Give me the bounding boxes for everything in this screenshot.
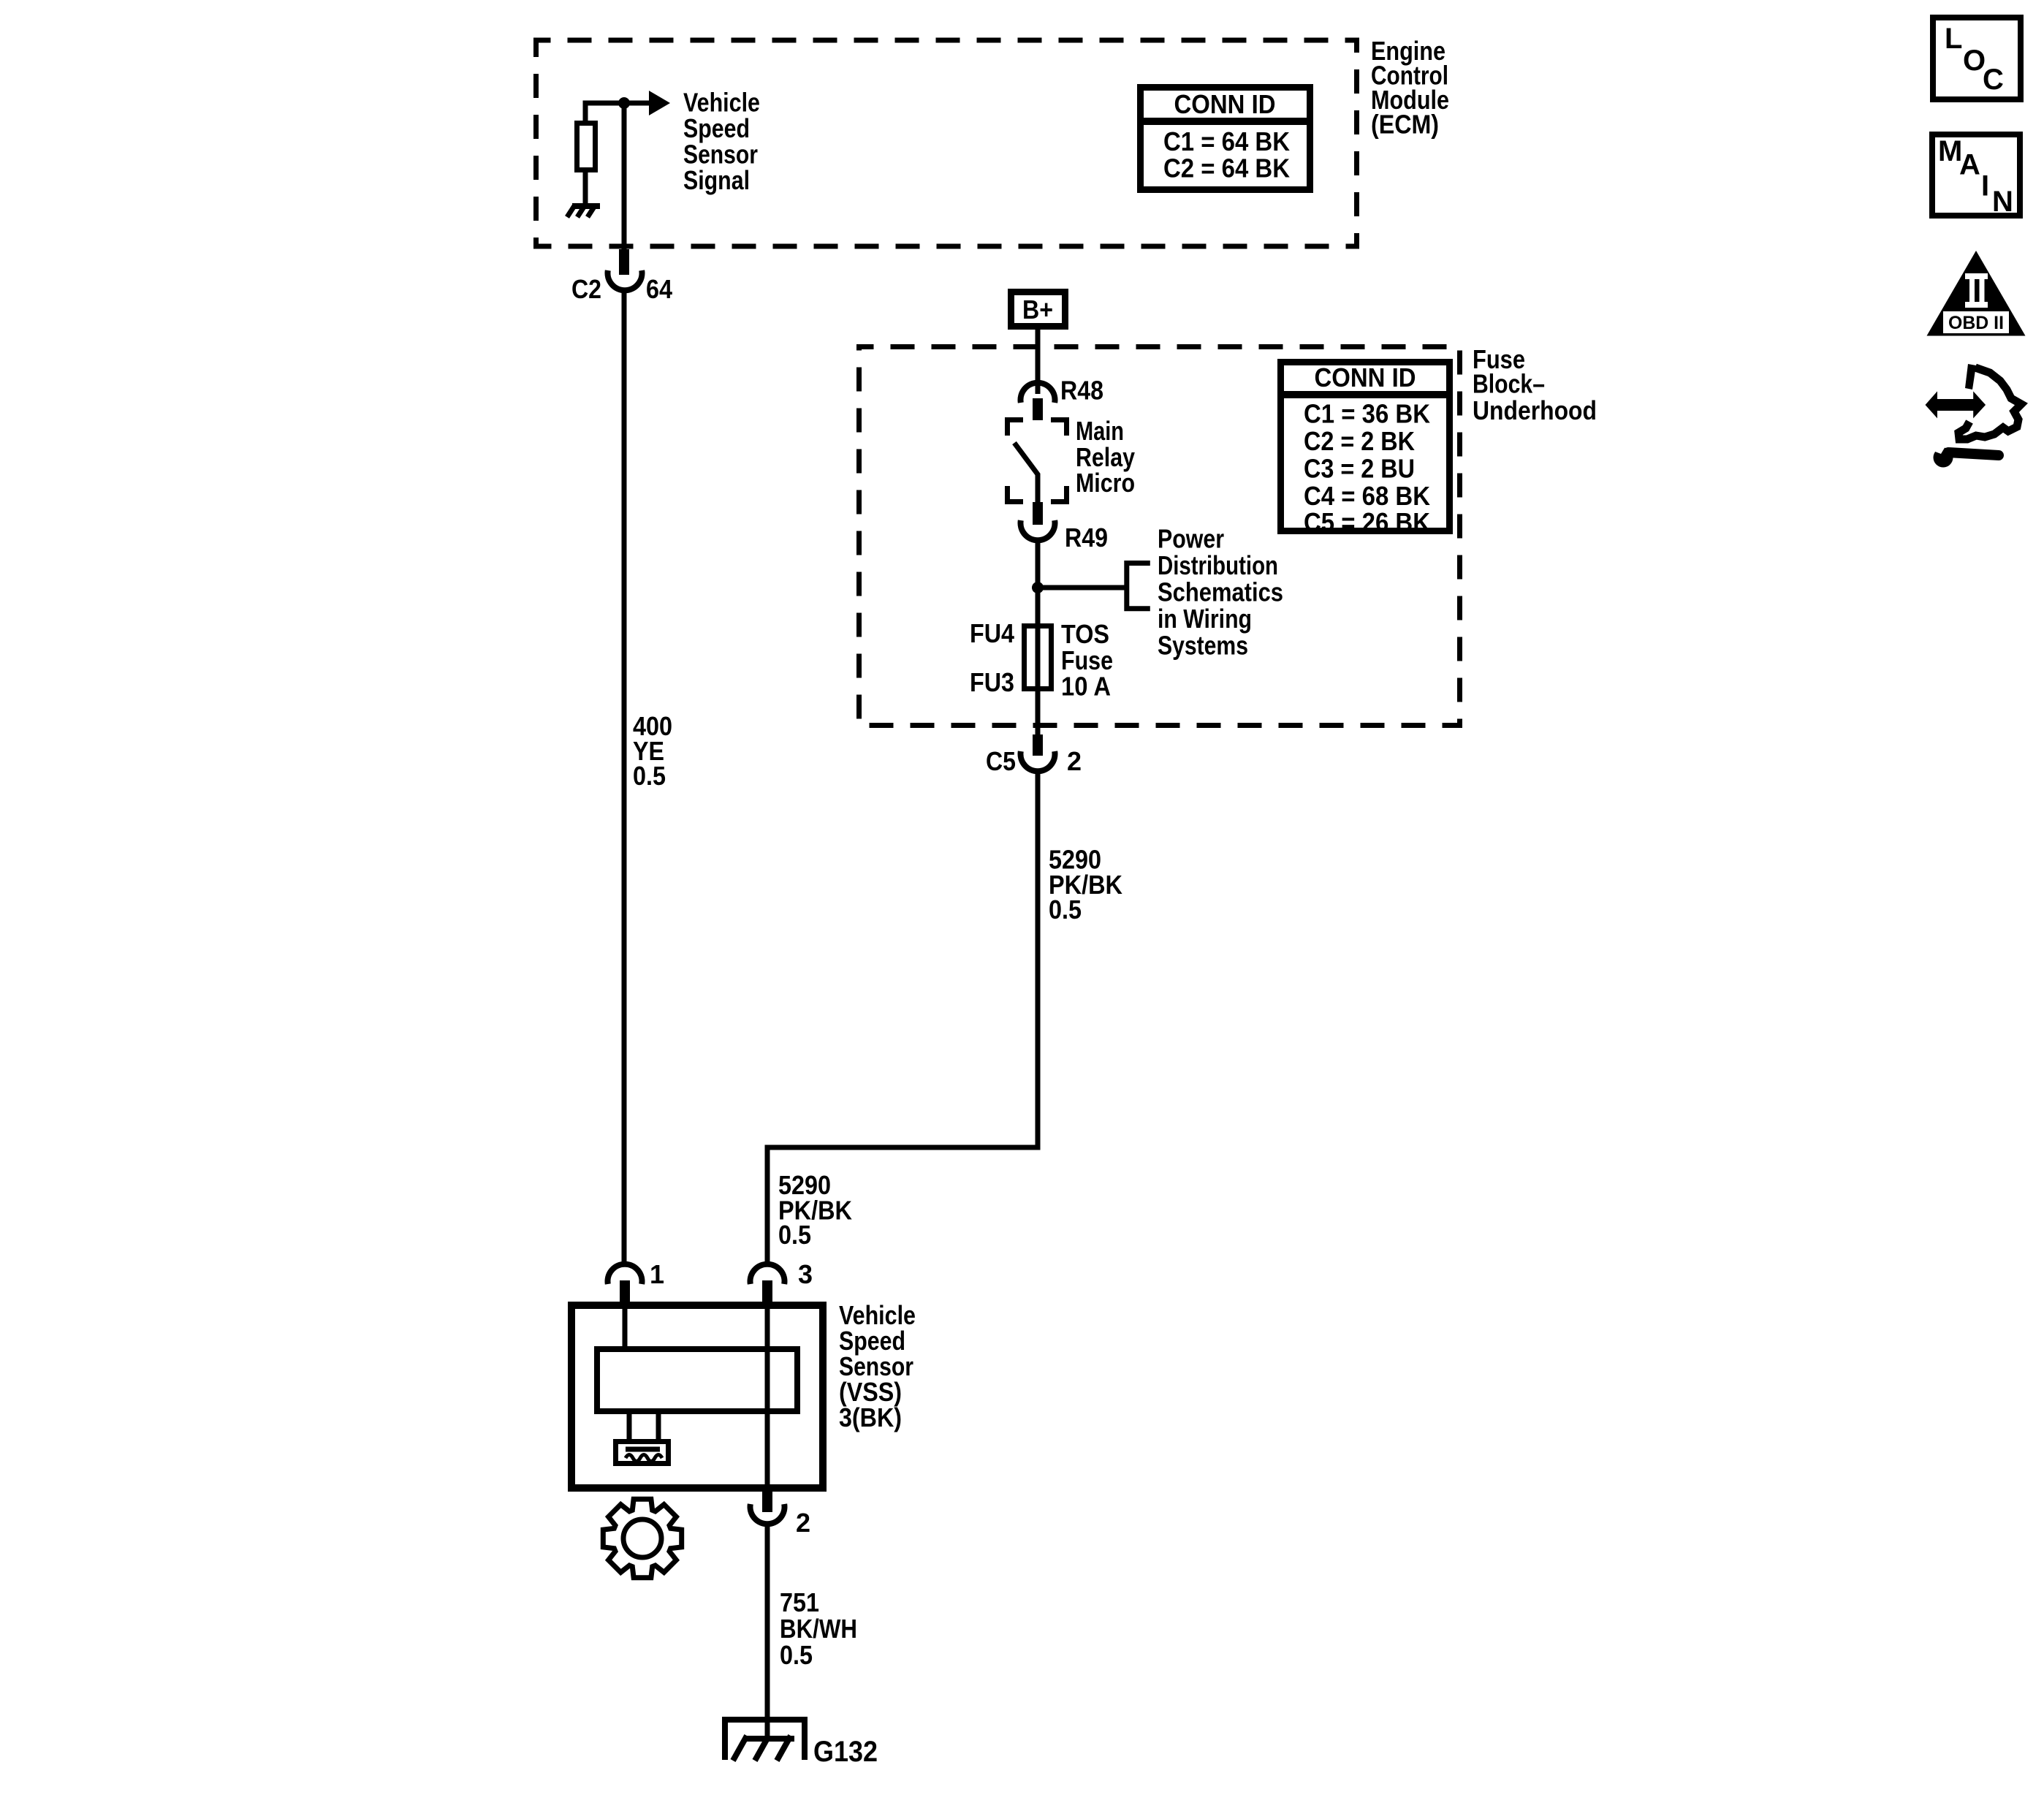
wire label 5290 PK/BK 0.5 (lower): [778, 1170, 852, 1250]
svg-text:in Wiring: in Wiring: [1158, 604, 1252, 634]
svg-text:3: 3: [798, 1259, 813, 1289]
Fuse Block dashed box: [859, 347, 1460, 726]
svg-text:L: L: [1945, 23, 1962, 55]
svg-text:Main: Main: [1076, 416, 1124, 446]
relay coil box corner brackets (Main Relay Micro): [1008, 420, 1067, 502]
svg-text:Block–: Block–: [1473, 369, 1545, 399]
svg-text:Power: Power: [1158, 524, 1224, 554]
svg-text:64: 64: [646, 274, 672, 304]
label: Main Relay Micro: [1076, 416, 1135, 498]
wire label 751 BK/WH 0.5: [780, 1587, 857, 1670]
svg-text:C2 = 64 BK: C2 = 64 BK: [1163, 153, 1290, 183]
gear hub circle: [623, 1519, 661, 1557]
svg-text:C4 = 68 BK: C4 = 68 BK: [1304, 481, 1430, 511]
label: Vehicle Speed Sensor Signal: [683, 88, 760, 196]
connector R48 female arc: [1021, 383, 1055, 403]
svg-text:I: I: [1981, 170, 1989, 202]
power distribution fork symbol: [1127, 563, 1150, 609]
ECM CONN ID table: [1137, 88, 1313, 190]
junction node dot: [1032, 582, 1044, 593]
gear symbol: [603, 1499, 681, 1577]
connector pin 1 female arc: [608, 1264, 642, 1284]
Fuse Block CONN ID table: [1277, 362, 1453, 538]
svg-text:10 A: 10 A: [1061, 672, 1111, 702]
double arrow: [1926, 391, 1986, 418]
svg-text:C5: C5: [986, 746, 1016, 776]
svg-text:C5 = 26 BK: C5 = 26 BK: [1304, 507, 1430, 537]
pickup squiggle: [626, 1455, 662, 1462]
connector C5 male terminal: [1033, 734, 1043, 756]
svg-text:C1 = 64 BK: C1 = 64 BK: [1163, 126, 1290, 156]
svg-text:C2 = 2 BK: C2 = 2 BK: [1304, 426, 1415, 456]
wire label 400 YE 0.5: [633, 711, 672, 791]
svg-text:Underhood: Underhood: [1473, 395, 1597, 425]
wire: junction to power distribution fork: [1038, 585, 1127, 591]
B+ power box: [1011, 292, 1065, 327]
svg-text:(ECM): (ECM): [1371, 110, 1439, 140]
wire: C5 down, across, down to VSS pin 3: [767, 772, 1038, 1262]
svg-text:C: C: [1983, 64, 2004, 96]
wire: pin3 through sensor box: [765, 1303, 770, 1492]
wire label 5290 PK/BK 0.5 (upper): [1049, 845, 1122, 925]
label: TOS Fuse 10 A: [1061, 619, 1113, 702]
connector R49 male terminal: [1033, 502, 1043, 525]
resistor (ECM internal): [577, 124, 596, 170]
svg-text:Signal: Signal: [683, 165, 750, 195]
hand outline: [1958, 368, 2021, 439]
wire: R49 down through fuse to C5: [1036, 542, 1041, 734]
wire: pin1 into sensor element: [623, 1303, 628, 1346]
svg-text:C2: C2: [571, 274, 601, 304]
wire: stub down to resistor: [583, 101, 588, 121]
svg-text:0.5: 0.5: [633, 761, 666, 791]
label: Power Distribution Schematics in Wiring Systems: [1158, 524, 1283, 661]
relay switch blade: [1014, 443, 1038, 502]
svg-text:0.5: 0.5: [778, 1220, 811, 1250]
VSS component box: [571, 1305, 823, 1488]
label: Fuse Block Underhood: [1473, 344, 1597, 425]
wire: 400 YE from C2 down to VSS pin 1: [622, 290, 627, 1262]
svg-text:A: A: [1959, 149, 1980, 181]
OBD II triangle icon: [1927, 251, 2026, 336]
hand finger bar: [1965, 364, 1976, 390]
connector C2 pin 64 female arc: [608, 270, 642, 290]
connector pin 2 male terminal: [762, 1492, 772, 1512]
svg-text:TOS: TOS: [1061, 619, 1109, 649]
VSS sensor element rectangle: [597, 1349, 797, 1411]
svg-text:2: 2: [1067, 746, 1082, 776]
svg-text:CONN ID: CONN ID: [1174, 89, 1276, 119]
wire: B+ down to relay R48: [1036, 330, 1041, 394]
ground G132 symbol: [722, 1717, 808, 1761]
connector pin 3 female arc: [751, 1264, 785, 1284]
svg-text:1: 1: [650, 1259, 664, 1289]
svg-text:R49: R49: [1065, 523, 1108, 553]
fuse FU4/FU3 TOS Fuse 10 A: [1025, 626, 1052, 689]
service hand-wrench icon: [1926, 364, 2022, 468]
arrowhead: [649, 91, 670, 115]
wrench: [1934, 448, 1953, 468]
svg-text:Distribution: Distribution: [1158, 550, 1278, 580]
wire: ECM signal down to C2 connector: [622, 103, 627, 250]
svg-text:OBD II: OBD II: [1948, 313, 2004, 333]
svg-text:B+: B+: [1022, 295, 1053, 324]
svg-text:FU4: FU4: [970, 618, 1014, 648]
ECM dashed box (Engine Control Module): [536, 40, 1357, 246]
svg-text:FU3: FU3: [970, 667, 1014, 697]
svg-text:0.5: 0.5: [780, 1640, 813, 1670]
svg-text:2: 2: [796, 1508, 810, 1538]
svg-text:Micro: Micro: [1076, 468, 1135, 498]
wire: horizontal signal line inside ECM with arrow: [585, 101, 650, 106]
connector pin 3 male terminal: [762, 1280, 772, 1303]
svg-text:C1 = 36 BK: C1 = 36 BK: [1304, 399, 1430, 429]
label: Engine Control Module (ECM): [1371, 36, 1449, 140]
connector C2 pin 64 male terminal: [619, 249, 629, 275]
svg-text:3(BK): 3(BK): [839, 1402, 902, 1432]
connector R48 male terminal: [1033, 398, 1043, 420]
connector R49 female arc: [1021, 520, 1055, 540]
svg-text:G132: G132: [813, 1736, 878, 1768]
svg-text:R48: R48: [1060, 376, 1103, 406]
svg-text:751: 751: [780, 1587, 819, 1617]
connector C5 female arc: [1021, 751, 1055, 771]
svg-text:BK/WH: BK/WH: [780, 1614, 857, 1644]
connector pin 1 male terminal: [620, 1280, 630, 1303]
svg-text:CONN ID: CONN ID: [1315, 362, 1416, 392]
junction node dot: [618, 97, 630, 109]
wire: resistor to ground: [583, 172, 588, 205]
LOC icon box: [1933, 18, 2021, 99]
svg-text:Schematics: Schematics: [1158, 577, 1283, 607]
pickup bar: [626, 1447, 660, 1452]
ground (ECM internal): [567, 205, 600, 217]
wire: sensor element to pickup left: [627, 1414, 632, 1439]
connector pin 2 female arc: [751, 1504, 785, 1524]
svg-text:C3 = 2 BU: C3 = 2 BU: [1304, 454, 1415, 484]
svg-text:0.5: 0.5: [1049, 895, 1082, 925]
wire: sensor element to pickup right: [656, 1414, 661, 1439]
MAIN icon box: [1932, 134, 2020, 218]
pickup coil box: [616, 1442, 669, 1464]
svg-text:Systems: Systems: [1158, 631, 1248, 661]
svg-text:N: N: [1992, 186, 2013, 218]
label: Vehicle Speed Sensor (VSS) 3(BK): [839, 1300, 916, 1432]
wire: 751 BK/WH pin2 to G132: [765, 1526, 770, 1739]
